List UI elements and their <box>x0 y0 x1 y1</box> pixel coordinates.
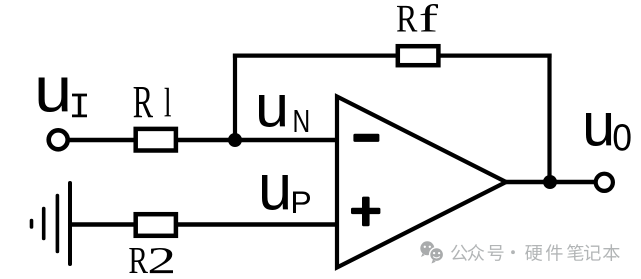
wire: ground to R2 <box>70 222 135 226</box>
op-amp inverting input minus symbol <box>353 134 379 142</box>
input terminal circle uI <box>49 130 68 149</box>
output node junction dot <box>543 175 557 189</box>
label uN <box>259 95 308 132</box>
ground symbol <box>32 183 71 264</box>
output terminal circle u0 <box>596 174 613 191</box>
node N junction dot <box>228 133 242 147</box>
op-amp non-inverting input plus symbol <box>351 197 380 227</box>
label uI <box>39 77 87 117</box>
watermark middle dot <box>511 250 515 254</box>
label R2 <box>129 248 173 273</box>
wire: R2 to op-amp non-inverting input <box>178 222 339 226</box>
label R1 <box>134 87 171 117</box>
watermark text 公众号 硬件笔记本 <box>451 244 620 261</box>
resistor Rf <box>398 46 439 65</box>
watermark icon: official account logo <box>420 241 443 263</box>
wire: R1 to op-amp inverting input <box>178 138 339 142</box>
wire: node N up to feedback <box>233 54 237 141</box>
op-amp U1 triangle <box>337 97 506 268</box>
wire: input terminal to R1 <box>67 138 135 142</box>
wire: feedback down to output node <box>547 54 551 183</box>
wire: op-amp output <box>506 180 595 184</box>
resistor R1 <box>136 129 176 151</box>
resistor R2 <box>136 214 176 236</box>
wire: feedback top right segment <box>438 53 552 57</box>
label Rf <box>397 4 438 31</box>
wire: feedback top left segment <box>233 53 397 57</box>
label u0 <box>586 113 631 151</box>
label uP <box>262 175 310 213</box>
